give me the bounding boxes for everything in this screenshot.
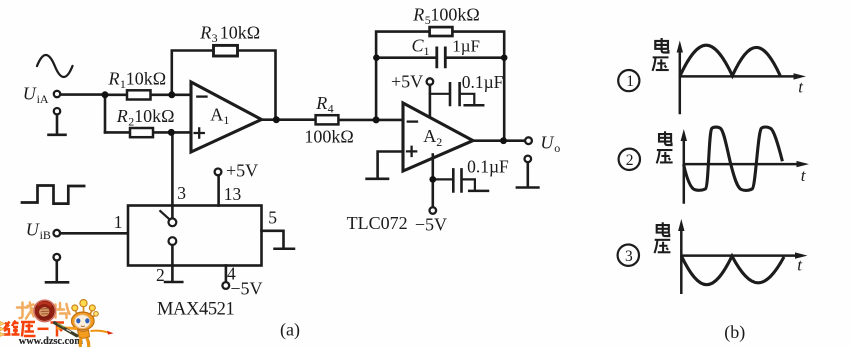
svg-text:A: A [210,104,223,124]
svg-text:10kΩ: 10kΩ [134,106,174,126]
svg-text:10kΩ: 10kΩ [126,68,166,88]
svg-text:1: 1 [223,113,229,127]
svg-text:iB: iB [40,228,51,242]
svg-text:U: U [26,219,40,239]
svg-text:1: 1 [626,73,634,90]
svg-text:t: t [798,77,804,96]
svg-text:iA: iA [37,92,49,106]
svg-text:100kΩ: 100kΩ [304,126,353,146]
svg-text:+5V: +5V [226,161,258,181]
svg-text:−5V: −5V [415,215,447,235]
svg-text:3: 3 [212,31,218,45]
svg-text:o: o [554,141,560,155]
svg-text:R: R [108,68,120,88]
svg-text:U: U [23,83,37,103]
svg-text:10kΩ: 10kΩ [220,23,260,43]
svg-text:2: 2 [626,152,634,169]
svg-text:R: R [199,23,211,43]
svg-text:3: 3 [177,183,186,203]
svg-text:1µF: 1µF [452,36,480,55]
svg-text:(a): (a) [280,319,300,340]
svg-text:0.1µF: 0.1µF [462,72,504,92]
svg-text:1: 1 [114,212,123,232]
svg-text:5: 5 [268,208,277,228]
svg-text:R: R [315,93,327,113]
svg-text:3: 3 [625,248,633,265]
svg-text:MAX4521: MAX4521 [157,300,235,320]
svg-text:−5V: −5V [230,278,262,298]
svg-text:4: 4 [328,101,334,115]
svg-text:www.dzsc.com: www.dzsc.com [19,336,83,347]
svg-text:2: 2 [156,265,165,285]
svg-text:100kΩ: 100kΩ [430,5,479,25]
svg-text:2: 2 [436,135,442,149]
svg-text:R: R [412,5,424,25]
svg-text:R: R [116,106,128,126]
svg-text:A: A [423,126,436,146]
svg-text:+5V: +5V [391,72,423,92]
svg-text:1: 1 [424,44,430,58]
svg-text:0.1µF: 0.1µF [467,157,509,177]
svg-text:(b): (b) [724,322,745,343]
svg-text:t: t [797,255,803,274]
svg-text:TLC072: TLC072 [347,213,408,233]
svg-text:13: 13 [224,184,242,204]
svg-text:U: U [540,132,554,152]
svg-text:t: t [801,166,807,185]
